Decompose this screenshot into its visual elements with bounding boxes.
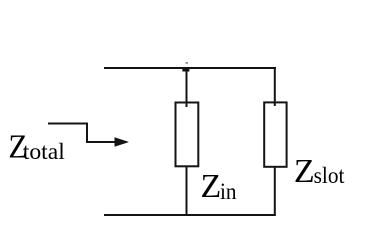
svg-text:total: total	[23, 139, 65, 164]
wire left vertical lower	[186, 166, 188, 216]
label Z_slot	[294, 153, 345, 190]
wire left vertical upper	[186, 68, 188, 107]
svg-text:slot: slot	[314, 163, 345, 188]
svg-text:Z: Z	[201, 168, 222, 205]
label Z_in	[201, 168, 237, 205]
wire bottom rail	[104, 214, 276, 216]
impedance Z_in box	[176, 103, 199, 167]
label Z_total	[8, 128, 64, 165]
wire right vertical upper	[274, 67, 276, 106]
arrow Z_total pointer	[48, 124, 129, 147]
svg-text:Z: Z	[294, 153, 315, 190]
impedance Z_slot box	[264, 102, 286, 166]
wire top rail	[104, 67, 276, 69]
wire right vertical lower	[274, 166, 276, 216]
node junction dot	[182, 68, 189, 72]
svg-text:in: in	[220, 179, 237, 204]
node mark above junction	[186, 62, 189, 64]
